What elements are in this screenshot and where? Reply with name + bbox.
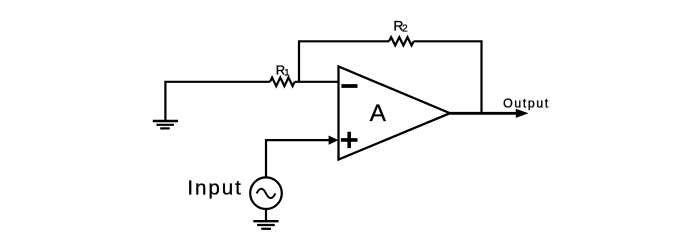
svg-text:2: 2 (402, 23, 408, 34)
svg-text:1: 1 (284, 68, 289, 79)
svg-text:A: A (370, 100, 387, 127)
svg-text:Output: Output (503, 97, 550, 111)
svg-text:Input: Input (187, 176, 242, 199)
